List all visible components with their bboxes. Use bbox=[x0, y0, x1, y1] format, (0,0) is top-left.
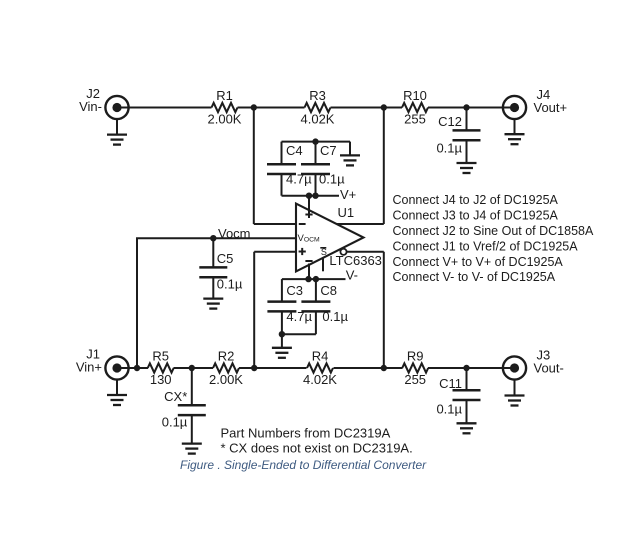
label U1 bbox=[338, 205, 355, 220]
wire R9 to J3 bbox=[428, 367, 515, 369]
svg-text:U1: U1 bbox=[338, 205, 355, 220]
svg-text:255: 255 bbox=[404, 372, 426, 387]
svg-text:0.1µ: 0.1µ bbox=[162, 414, 188, 429]
svg-text:Figure . Single-Ended to Diffe: Figure . Single-Ended to Differential Co… bbox=[180, 458, 427, 472]
svg-text:R10: R10 bbox=[403, 88, 427, 103]
svg-text:Vin-: Vin- bbox=[79, 99, 102, 114]
label V- bbox=[346, 267, 358, 282]
svg-text:R4: R4 bbox=[312, 349, 329, 364]
op-amp V+ supply pin bbox=[305, 196, 312, 218]
svg-text:C5: C5 bbox=[217, 251, 234, 266]
svg-text:R1: R1 bbox=[216, 88, 233, 103]
node Vocm tap on input rail bbox=[134, 365, 140, 371]
figure caption bbox=[180, 458, 427, 472]
wire R1 to R3 bbox=[238, 107, 305, 109]
ground under C5 bbox=[203, 299, 223, 309]
capacitor C11 0.1u bbox=[436, 368, 480, 417]
capacitor C12 0.1u bbox=[436, 108, 480, 156]
wire node E up to OUT- bbox=[347, 252, 384, 368]
node A (R1/R3 inverting input tap) bbox=[251, 104, 257, 110]
capacitor C4 4.7u bbox=[267, 142, 312, 196]
svg-text:C3: C3 bbox=[286, 283, 303, 298]
resistor R2 2.00K bbox=[209, 349, 243, 388]
svg-text:Part Numbers from DC2319A: Part Numbers from DC2319A bbox=[221, 426, 391, 441]
label Vocm bbox=[218, 226, 251, 241]
resistor R9 255 bbox=[402, 349, 428, 388]
wire C12 to ground bbox=[466, 140, 468, 163]
node C7 bottom lead bbox=[312, 193, 318, 199]
wire R4 to R9 bbox=[334, 367, 403, 369]
ground for V+ bypass bbox=[340, 155, 360, 165]
node V+ supply drop bbox=[306, 193, 312, 199]
svg-text:2.00K: 2.00K bbox=[208, 112, 242, 127]
node CX tap bbox=[189, 365, 195, 371]
svg-text:Connect J1 to Vref/2 of DC1925: Connect J1 to Vref/2 of DC1925A bbox=[393, 239, 579, 253]
svg-text:0.1µ: 0.1µ bbox=[217, 277, 243, 292]
svg-text:C11: C11 bbox=[439, 376, 462, 391]
svg-text:Vout+: Vout+ bbox=[534, 100, 568, 115]
wire CX to ground bbox=[191, 415, 193, 443]
svg-text:130: 130 bbox=[150, 372, 172, 387]
svg-text:255: 255 bbox=[404, 112, 426, 127]
wire R5 to R2 bbox=[174, 367, 214, 369]
node D (R2/R4 noninverting input tap) bbox=[251, 365, 257, 371]
svg-text:Connect J2 to Sine Out of DC18: Connect J2 to Sine Out of DC1858A bbox=[393, 224, 594, 238]
connector J1 Vin+ bbox=[76, 347, 129, 380]
wire V+ bypass bottom rail bbox=[282, 195, 340, 197]
svg-text:Connect V- to V- of DC1925A: Connect V- to V- of DC1925A bbox=[393, 270, 556, 284]
svg-text:R3: R3 bbox=[309, 88, 326, 103]
op-amp V- supply pin bbox=[305, 261, 312, 279]
connector J4 Vout+ bbox=[503, 87, 567, 119]
svg-text:Vin+: Vin+ bbox=[76, 360, 102, 375]
wire R2 to R4 bbox=[239, 367, 307, 369]
svg-text:* CX does not exist on DC2319A: * CX does not exist on DC2319A. bbox=[221, 441, 413, 456]
ground for V- bypass bbox=[272, 348, 292, 358]
wire node D up to +IN bbox=[254, 252, 296, 368]
node B (R3/R10 output+ tap) bbox=[381, 104, 387, 110]
svg-text:2.00K: 2.00K bbox=[209, 372, 243, 387]
note part numbers bbox=[221, 426, 413, 456]
node E (R4/R9 output- tap) bbox=[381, 365, 387, 371]
svg-text:Vocm: Vocm bbox=[218, 226, 251, 241]
svg-text:0.1µ: 0.1µ bbox=[436, 402, 462, 417]
svg-text:C8: C8 bbox=[320, 283, 337, 298]
capacitor C8 0.1u bbox=[301, 279, 348, 334]
wire V- bypass ground stub bbox=[281, 334, 283, 347]
wire J2 to R1 bbox=[117, 107, 212, 109]
wire node B down to OUT+ bbox=[337, 108, 384, 225]
wire C11 to ground bbox=[466, 400, 468, 423]
wire Vocm bbox=[136, 238, 296, 368]
svg-text:0.1µ: 0.1µ bbox=[319, 172, 345, 187]
svg-text:0.1µ: 0.1µ bbox=[322, 309, 348, 324]
node C3 bottom / ground tap bbox=[279, 331, 285, 337]
capacitor CX 0.1u bbox=[162, 368, 206, 429]
svg-text:R9: R9 bbox=[407, 349, 424, 364]
wire J1 to R5 bbox=[117, 367, 148, 369]
node F (C11 tap) bbox=[463, 365, 469, 371]
svg-text:C12: C12 bbox=[438, 114, 462, 129]
wire node A down to -IN bbox=[254, 108, 296, 225]
ground under C12 bbox=[457, 163, 477, 173]
svg-text:4.02K: 4.02K bbox=[301, 112, 335, 127]
ground under J2 bbox=[107, 119, 127, 145]
capacitor C7 0.1u bbox=[301, 142, 345, 196]
svg-text:V+: V+ bbox=[340, 187, 356, 202]
label LTC6363 bbox=[329, 253, 382, 268]
wire V- rail bbox=[282, 278, 346, 280]
op-amp -IN marking bbox=[299, 223, 306, 225]
svg-text:R2: R2 bbox=[218, 349, 235, 364]
wire R3 to R10 bbox=[331, 107, 403, 109]
svg-text:CX*: CX* bbox=[164, 389, 187, 404]
note connection instructions bbox=[393, 193, 594, 284]
svg-text:LTC6363: LTC6363 bbox=[329, 253, 382, 268]
resistor R1 2.00K bbox=[208, 88, 242, 127]
capacitor C3 4.7u bbox=[267, 279, 312, 334]
resistor R5 130 bbox=[148, 349, 174, 388]
svg-text:R5: R5 bbox=[152, 349, 169, 364]
connector J3 Vout- bbox=[503, 348, 564, 380]
ground under CX bbox=[182, 444, 202, 454]
wire R10 to J4 bbox=[428, 107, 515, 109]
ground under J3 bbox=[505, 380, 525, 406]
op-amp shutdown pin S-bar bbox=[320, 247, 327, 271]
op-amp VOCM pin label bbox=[298, 233, 321, 244]
wire C5 to ground bbox=[212, 277, 214, 298]
label V+ bbox=[340, 187, 356, 202]
op-amp output bubble bbox=[340, 249, 346, 255]
svg-text:Vout-: Vout- bbox=[534, 361, 564, 376]
wire V+ bypass ground stub bbox=[349, 142, 351, 156]
ground under C11 bbox=[457, 423, 477, 433]
svg-text:V-: V- bbox=[346, 267, 358, 282]
node C (C12 tap) bbox=[463, 104, 469, 110]
node V- supply drop bbox=[305, 276, 311, 282]
wire V- bypass bottom rail bbox=[282, 333, 316, 335]
svg-text:Connect J3 to J4 of DC1925A: Connect J3 to J4 of DC1925A bbox=[393, 209, 559, 223]
svg-text:C4: C4 bbox=[286, 143, 303, 158]
svg-text:4.02K: 4.02K bbox=[303, 372, 337, 387]
node Vocm (C5 tap) bbox=[210, 235, 216, 241]
resistor R3 4.02K bbox=[301, 88, 335, 127]
capacitor C5 0.1u bbox=[199, 238, 243, 291]
svg-text:0.1µ: 0.1µ bbox=[436, 141, 462, 156]
resistor R10 255 bbox=[402, 88, 428, 127]
ground under J1 bbox=[107, 380, 127, 405]
svg-text:S: S bbox=[321, 247, 327, 257]
wire V+ bypass top rail bbox=[282, 141, 351, 143]
node C8 top lead bbox=[313, 276, 319, 282]
op-amp U1 LTC6363 triangle bbox=[296, 204, 364, 272]
node C7 top lead bbox=[312, 138, 318, 144]
svg-text:Connect V+ to V+ of DC1925A: Connect V+ to V+ of DC1925A bbox=[393, 255, 564, 269]
connector J2 Vin- bbox=[79, 86, 128, 119]
op-amp +IN marking bbox=[299, 248, 306, 255]
ground under J4 bbox=[505, 119, 525, 144]
svg-text:C7: C7 bbox=[320, 143, 337, 158]
resistor R4 4.02K bbox=[303, 349, 337, 388]
svg-text:Connect J4 to J2 of DC1925A: Connect J4 to J2 of DC1925A bbox=[393, 193, 559, 207]
